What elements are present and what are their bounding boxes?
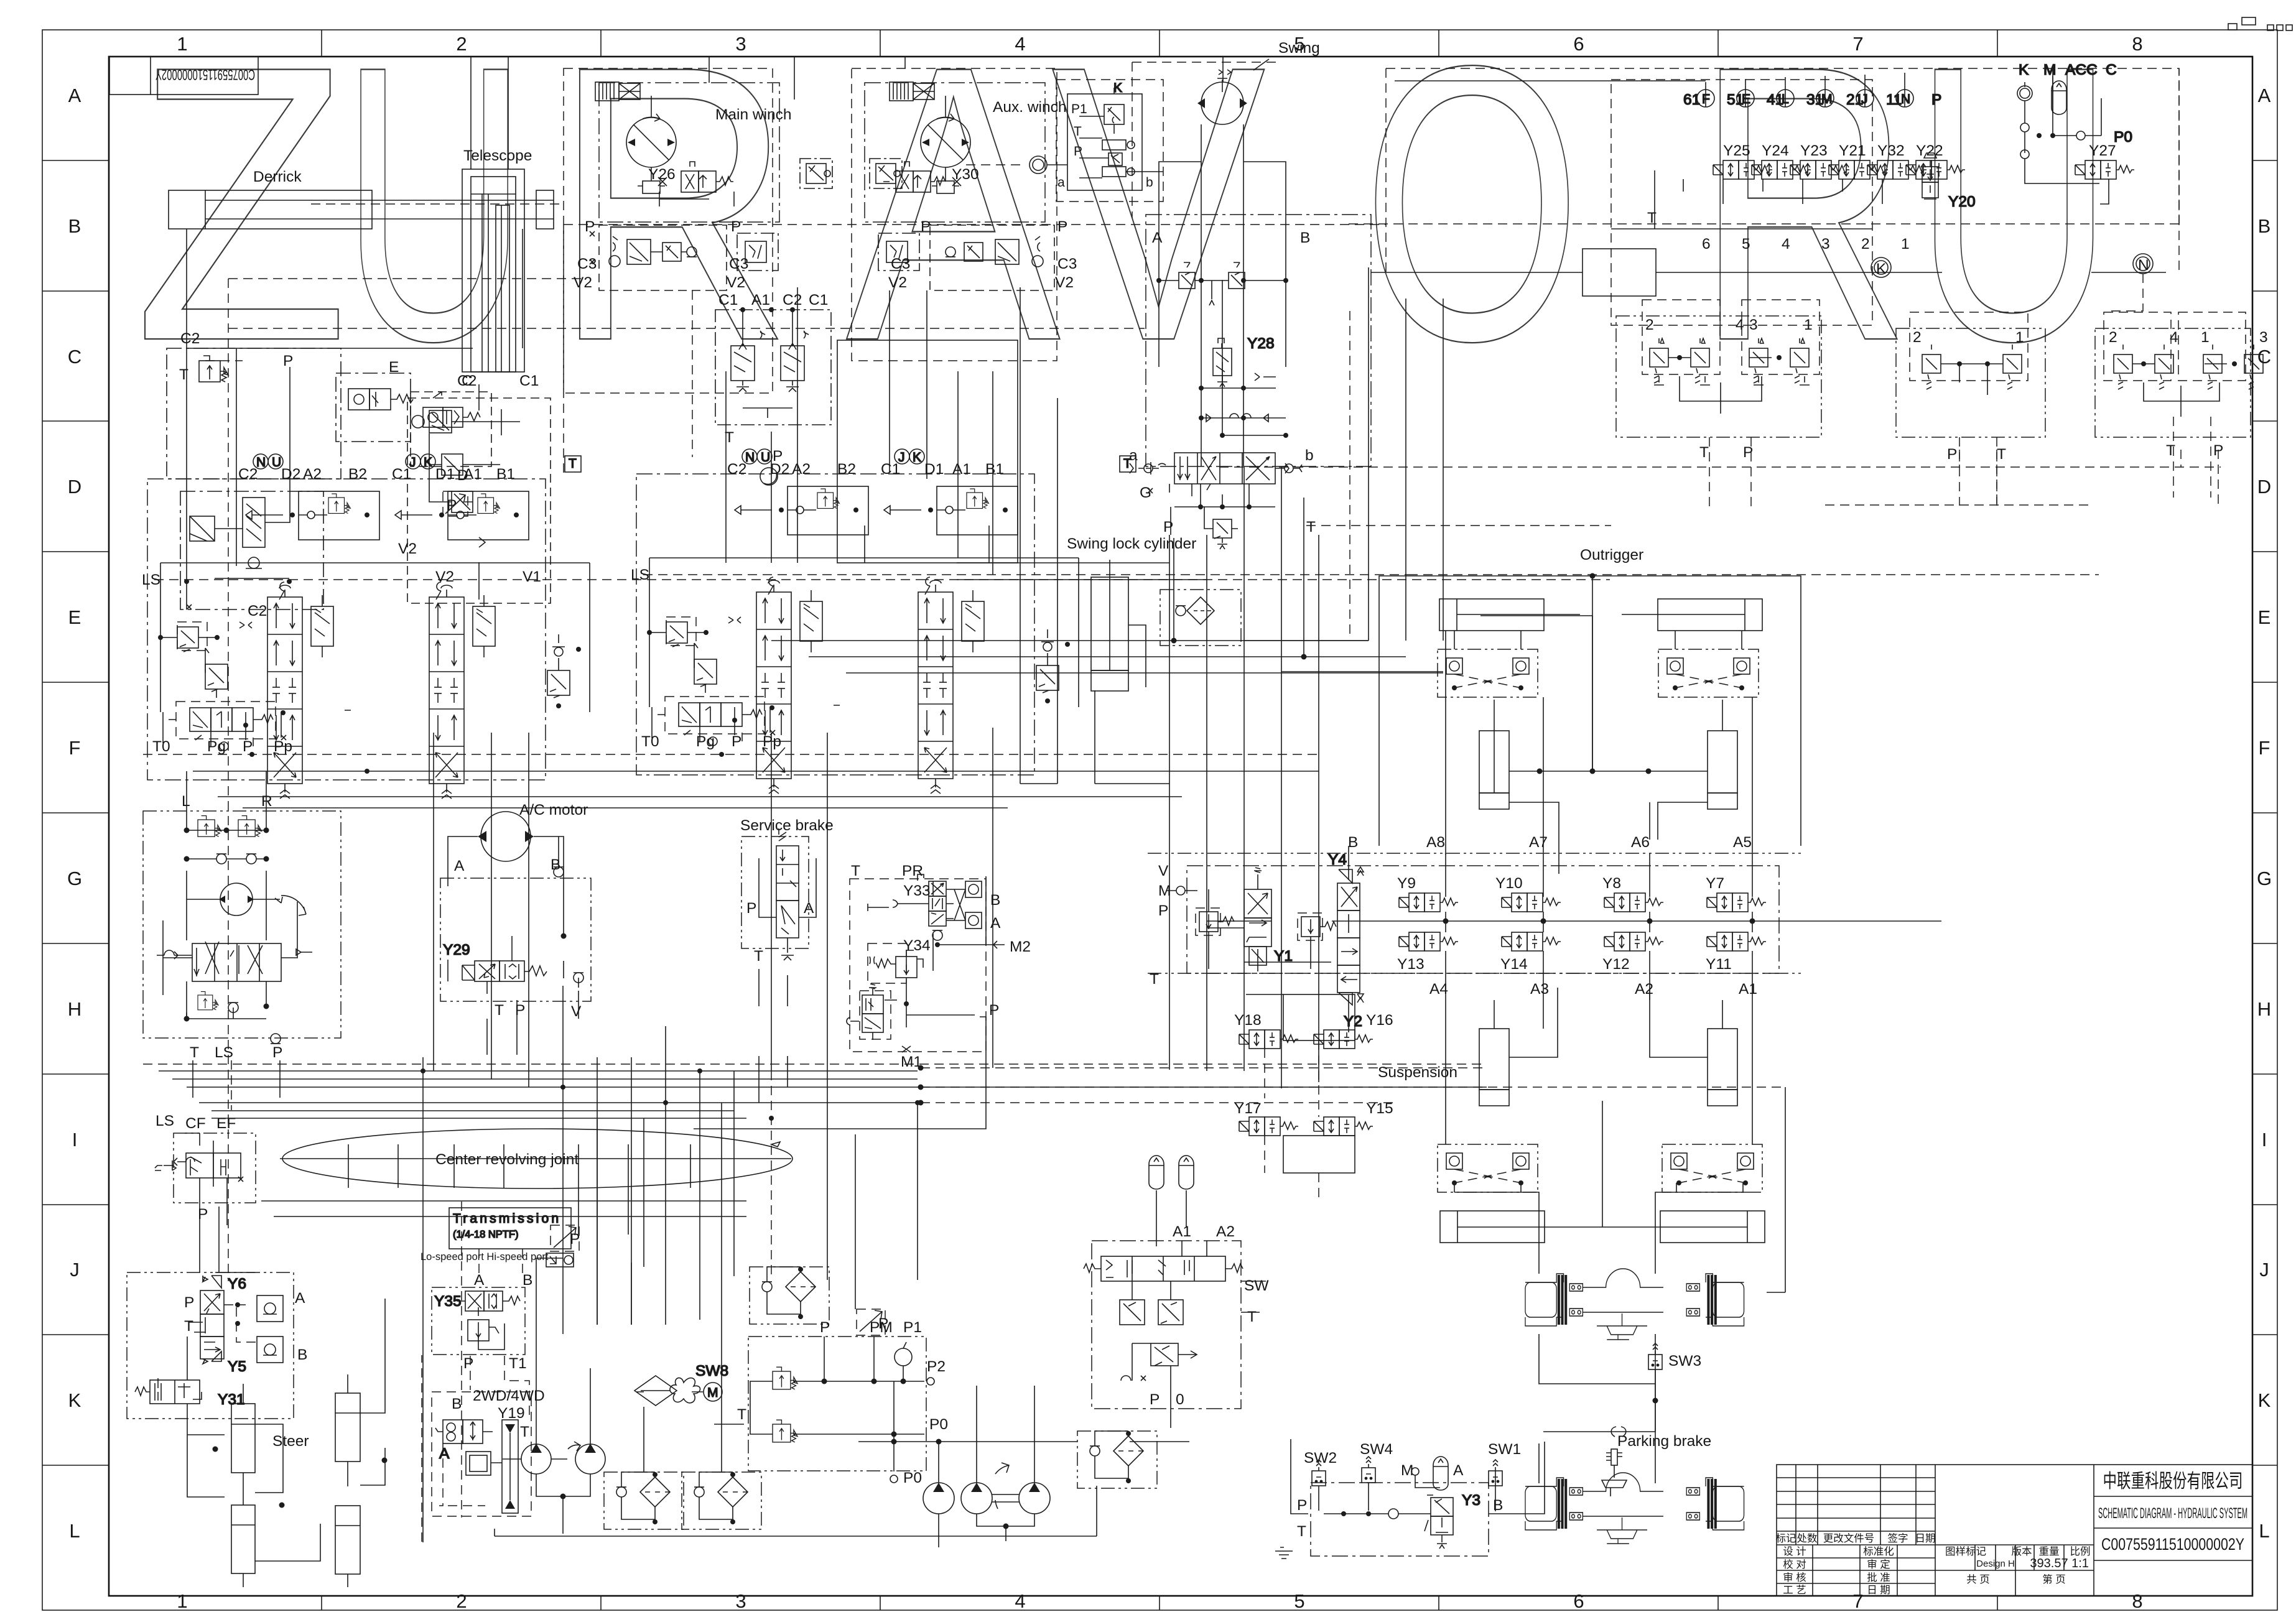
svg-text:Pp: Pp [274,738,292,755]
svg-text:Y25: Y25 [1723,142,1750,159]
svg-text:A: A [990,915,1001,932]
svg-text:Y5: Y5 [228,1358,246,1375]
svg-text:3: 3 [1821,236,1830,253]
small P pilot box right [737,233,778,271]
svg-text:C2: C2 [180,330,200,347]
port P gauge line valve [546,1253,574,1267]
svg-text:SW8: SW8 [695,1363,728,1379]
svg-text:V: V [571,1003,582,1020]
cross reliefs [1156,262,1288,305]
svg-text:8: 8 [2132,1590,2142,1612]
svg-text:T1: T1 [509,1355,527,1372]
svg-text:C3: C3 [729,256,748,272]
svg-text:Derrick: Derrick [253,169,302,185]
svg-text:P: P [820,1319,830,1336]
axle links [918,1065,1786,1484]
svg-text:6: 6 [1702,236,1711,253]
vertical cylinders upper [1479,700,1737,874]
svg-text:D1: D1 [435,466,455,483]
svg-text:M2: M2 [1010,938,1031,955]
drawing number label box C00755911510000002Y [109,57,258,95]
svg-text:F: F [69,737,81,759]
svg-text:N: N [256,455,266,470]
svg-text:K: K [2258,1389,2271,1411]
accumulator [1149,1156,1164,1189]
svg-text:H: H [68,998,81,1020]
svg-text:LS: LS [142,572,160,588]
svg-text:1: 1 [1901,236,1910,253]
svg-text:5: 5 [1742,236,1750,253]
swing block boundary [1146,215,1371,466]
svg-text:A1: A1 [1173,1223,1191,1240]
svg-text:B2: B2 [348,466,367,483]
svg-text:A5: A5 [1733,834,1752,851]
svg-text:D: D [68,476,81,498]
svg-text:11: 11 [1886,91,1902,108]
svg-text:C00755911510000002Y: C00755911510000002Y [156,66,255,83]
svg-text:A: A [1152,229,1163,246]
svg-text:Aux. winch: Aux. winch [993,99,1066,116]
svg-text:P1: P1 [1071,102,1087,116]
svg-text:Y3: Y3 [1462,1492,1480,1509]
svg-text:Lo-speed port Hi-speed port: Lo-speed port Hi-speed port [421,1251,549,1263]
svg-text:393.57: 393.57 [2030,1557,2068,1570]
steering priority valve LS CF EF [155,1113,256,1225]
transmission control [421,1208,605,1534]
svg-text:P: P [184,1294,194,1311]
svg-text:I: I [72,1129,78,1151]
wire diagonals (leader lines) [187,348,473,349]
lower vertical cylinders [1479,988,1737,1106]
main fan spool [157,902,312,1019]
rear axle [1525,1269,1744,1340]
brake release block SW2 SW4 SW1 Y3 [1275,1439,1545,1559]
svg-text:Center revolving joint: Center revolving joint [435,1151,579,1168]
svg-text:A: A [1453,1462,1464,1479]
svg-text:比例: 比例 [2070,1545,2091,1557]
svg-text:P: P [1074,144,1082,159]
svg-text:T: T [1150,971,1159,988]
aux winch circuit [852,68,1077,361]
svg-text:A2: A2 [1635,981,1653,998]
main control valve bank (left) [142,454,1610,799]
svg-text:K: K [1876,261,1887,277]
swing motor [1197,70,1247,124]
steer circuit [127,1272,388,1587]
svg-text:M: M [1821,92,1833,106]
svg-text:审 核: 审 核 [1783,1572,1806,1583]
svg-text:N: N [2138,257,2149,274]
svg-text:2: 2 [1913,329,1922,346]
svg-text:V: V [1158,863,1169,879]
svg-text:签字: 签字 [1888,1532,1908,1544]
svg-text:J: J [409,455,416,470]
svg-text:1: 1 [1804,317,1813,333]
extra feeders [200,616,1592,1272]
svg-text:Swing: Swing [1278,40,1320,57]
svg-text:P: P [731,218,741,235]
lower relief + checks [184,991,281,1044]
port labels [238,466,515,483]
svg-text:7: 7 [1852,1590,1863,1612]
svg-text:C: C [68,346,81,368]
counterbalance body [180,367,323,609]
svg-text:T: T [520,1424,529,1440]
svg-text:T: T [1699,444,1709,461]
derrick holding-valve block [167,348,341,479]
pilot valve bottom-left of bank [169,702,351,746]
sheet corner marks [2228,17,2292,30]
solenoid valves rows [1397,875,1766,973]
charge valve [847,984,975,1040]
svg-text:3: 3 [1749,317,1758,333]
svg-text:PM: PM [870,1319,893,1336]
svg-text:G: G [67,868,82,889]
svg-text:0: 0 [1176,1391,1184,1408]
svg-text:A8: A8 [1426,834,1445,851]
winch brake shuttle block below [599,225,727,290]
svg-text:U: U [341,0,528,423]
valve manifold left: V M P, relief, Y1, Y2/Y4 [1187,866,1779,973]
relief manifold block [748,1337,926,1471]
svg-text:5: 5 [1294,1590,1304,1612]
svg-text:4: 4 [2170,329,2178,346]
svg-text:A7: A7 [1529,834,1548,851]
anti-cavitation checks [1199,280,1288,438]
svg-text:Y29: Y29 [443,942,470,958]
svg-text:Y27: Y27 [2089,142,2116,159]
svg-text:SW1: SW1 [1488,1441,1521,1458]
swing circuit [1129,40,1371,549]
outrigger lock valve (right upper) [1658,649,1759,697]
svg-text:E: E [68,606,81,628]
extra bundle lines [172,1079,918,1159]
cluster 1 (col6) [1616,300,1821,512]
svg-text:C3: C3 [891,256,910,272]
svg-text:C1: C1 [519,373,539,389]
svg-text:a: a [1057,175,1065,190]
top compensator boxes [246,491,379,540]
svg-text:批 准: 批 准 [1867,1572,1890,1583]
svg-text:2WD/4WD: 2WD/4WD [473,1388,545,1404]
svg-text:B: B [1348,834,1358,851]
svg-text:C2: C2 [248,603,267,619]
outrigger circuit [1148,547,1941,1243]
svg-text:E: E [2258,606,2271,628]
return filter [604,1472,684,1529]
svg-text:L: L [69,1520,80,1542]
svg-text:Y9: Y9 [1397,875,1416,892]
svg-text:A2: A2 [1216,1223,1235,1240]
svg-text:3: 3 [2259,329,2268,346]
svg-text:A1: A1 [751,292,770,308]
vertical links winch valves to banks [726,287,1020,575]
svg-text:Y12: Y12 [1602,956,1630,973]
swing downfeeds [1174,535,1304,657]
suspension pilot valves [1149,994,1457,1246]
svg-text:标记: 标记 [1776,1532,1796,1544]
return manifold [837,340,1018,563]
svg-text:C: C [2106,62,2117,78]
svg-text:版本: 版本 [2012,1545,2032,1557]
svg-text:A: A [804,900,814,917]
svg-text:P: P [921,218,931,235]
svg-text:K: K [68,1389,81,1411]
svg-text:A1: A1 [1739,981,1757,998]
svg-text:R: R [552,0,793,422]
svg-text:Y24: Y24 [1762,142,1789,159]
svg-text:6: 6 [1573,1590,1584,1612]
svg-text:P: P [1057,218,1067,235]
svg-text:Y30: Y30 [952,166,979,183]
accumulator [1179,1156,1194,1189]
solenoid valve Y11 [1707,932,1766,951]
svg-text:P: P [746,900,756,917]
derrick cylinder [169,190,372,229]
pilot valve square E [336,373,413,442]
svg-text:Y10: Y10 [1495,875,1523,892]
svg-text:G: G [2257,868,2272,889]
swing lock cylinder [1067,535,1241,691]
lines down to manifolds [1706,73,1905,107]
svg-text:B: B [990,892,1000,909]
svg-text:C1: C1 [718,292,738,308]
hose bundles [143,986,1487,1542]
bottom relief [1174,484,1275,549]
svg-text:M: M [707,1386,718,1400]
svg-text:V2: V2 [888,274,907,291]
svg-text:A: A [846,0,1062,423]
svg-text:T: T [1297,1523,1306,1540]
LS line + top rails [160,563,590,712]
svg-text:(1/4-18 NPTF): (1/4-18 NPTF) [453,1229,518,1240]
numbers under valves [1702,236,1910,253]
svg-text:1:1: 1:1 [2071,1557,2089,1570]
svg-text:更改文件号: 更改文件号 [1823,1532,1875,1544]
svg-text:Design H: Design H [1976,1559,2015,1569]
svg-text:P: P [1947,446,1957,463]
svg-text:B1: B1 [496,466,515,483]
svg-text:V2: V2 [1055,274,1074,291]
svg-text:Y14: Y14 [1500,956,1528,973]
brake charge cluster Y33 Y34 [694,863,1031,1129]
svg-text:A: A [68,85,81,106]
solenoid valve Y12 [1604,932,1663,951]
derrick circuit [167,169,1145,1281]
telescope cylinder circuit [407,147,551,603]
svg-text:N: N [1901,92,1910,106]
svg-text:M: M [2043,62,2056,78]
svg-text:P: P [1158,902,1168,919]
dashed LS line across top [228,328,1145,329]
svg-text:P: P [272,1044,282,1061]
svg-text:C2: C2 [238,466,258,483]
svg-text:V2: V2 [727,274,745,291]
svg-text:A: A [2258,85,2271,106]
svg-text:Y32: Y32 [1877,142,1905,159]
svg-text:G: G [1140,484,1151,501]
right side relief of bank [547,634,581,708]
svg-text:P0: P0 [929,1416,948,1433]
top feeders from frame [471,57,1223,169]
svg-text:中联重科股份有限公司: 中联重科股份有限公司 [2103,1470,2243,1492]
svg-text:Y26: Y26 [648,166,676,183]
svg-text:Steer: Steer [272,1433,309,1450]
svg-text:SW3: SW3 [1668,1353,1701,1369]
svg-text:3: 3 [735,1590,746,1612]
svg-text:P1: P1 [903,1319,922,1336]
feeders down to transmission/pumps area [536,1103,855,1392]
svg-text:T: T [754,948,763,965]
horizontal cylinders with rods [1439,599,1762,631]
svg-text:J: J [2259,1259,2269,1281]
pumps / filters / relief manifold [422,1225,1189,1547]
svg-text:J: J [70,1259,80,1281]
dashed verticals left of winches [564,225,692,473]
spool stacks [267,585,302,799]
svg-text:B: B [297,1346,307,1363]
pilot solenoid bank top right [1386,62,2179,325]
svg-text:Y18: Y18 [1234,1012,1262,1029]
svg-text:T: T [569,456,577,471]
svg-text:Y8: Y8 [1602,875,1621,892]
svg-text:Y19: Y19 [498,1405,525,1422]
2WD/4WD [432,1392,531,1516]
interconnection dashed lines right side [1349,68,2179,224]
svg-text:1: 1 [2015,329,2024,346]
svg-text:1: 1 [177,1590,187,1612]
Y20 vertical valve [1922,153,1976,210]
pilot filter [1077,1431,1157,1488]
svg-text:共 页: 共 页 [1966,1573,1990,1585]
svg-text:T: T [1074,124,1082,139]
right dashed run lines [1219,467,2221,526]
svg-text:Pg: Pg [207,738,226,755]
svg-text:T: T [1123,456,1132,471]
svg-text:校 对: 校 对 [1783,1559,1806,1570]
svg-text:2: 2 [1645,317,1654,333]
svg-text:B: B [68,215,81,237]
svg-text:Y22: Y22 [1916,142,1943,159]
svg-text:B: B [551,856,560,873]
svg-text:C2: C2 [783,292,802,308]
pressure switch SW3 [1543,1343,1701,1432]
T boxes at top of banks [565,456,581,472]
svg-text:图样标记: 图样标记 [1945,1545,1986,1557]
steer cylinders [213,1272,388,1587]
svg-text:Y11: Y11 [1706,956,1732,973]
compensator small valves beside spools [279,582,495,657]
svg-text:处数: 处数 [1797,1532,1818,1544]
svg-text:8: 8 [2132,33,2142,55]
svg-text:4: 4 [1782,236,1790,253]
svg-text:标准化: 标准化 [1863,1545,1894,1557]
svg-text:A: A [439,1445,450,1462]
svg-text:Swing lock cylinder: Swing lock cylinder [1067,535,1196,552]
svg-text:L: L [2259,1520,2269,1542]
svg-text:H: H [2257,998,2271,1020]
svg-text:PR: PR [902,863,923,879]
svg-text:A: A [454,858,465,874]
svg-text:P0: P0 [903,1470,922,1486]
svg-text:I: I [2262,1129,2267,1151]
K and N circles [1871,257,1891,277]
svg-text:工 艺: 工 艺 [1783,1584,1806,1596]
svg-text:Outrigger: Outrigger [1580,547,1643,563]
service brake drops [759,1056,788,1103]
svg-text:B: B [2258,215,2271,237]
main pressure line P0 across [858,1441,1189,1442]
svg-text:U: U [272,455,281,470]
svg-text:V2: V2 [574,274,592,291]
Y26 pilot valve [659,162,734,206]
Y27 + accumulator K M ACC C [2017,62,2132,183]
watermark ZURAVO RU [134,0,2114,423]
svg-text:日 期: 日 期 [1867,1584,1890,1596]
svg-text:SW2: SW2 [1304,1450,1337,1466]
inlet section: reducing valve + relief [158,622,252,698]
svg-text:T: T [1997,446,2006,463]
title block [1776,1465,2253,1596]
svg-text:T: T [495,1002,504,1019]
svg-text:第 页: 第 页 [2042,1573,2066,1585]
front axle with parking brake [1525,1427,1744,1544]
svg-text:日期: 日期 [1915,1532,1936,1544]
svg-text:SCHEMATIC DIAGRAM - HYDRAULIC: SCHEMATIC DIAGRAM - HYDRAULIC SYSTEM [2098,1505,2247,1522]
svg-text:C1: C1 [392,466,411,483]
A/C motor circuit [440,802,591,1055]
svg-text:R: R [261,793,272,810]
svg-text:P: P [1297,1497,1307,1514]
svg-text:4: 4 [1736,317,1744,333]
svg-text:SW4: SW4 [1360,1441,1393,1458]
svg-text:b: b [1146,175,1153,190]
svg-text:F: F [2259,737,2270,759]
svg-text:P: P [463,1355,473,1372]
triple pump [923,1386,1050,1547]
svg-text:2: 2 [1861,236,1870,253]
svg-text:SW: SW [1244,1277,1269,1294]
svg-text:P0: P0 [2114,129,2132,146]
Y4/Y2 vertical spool [1328,846,1364,1032]
svg-text:L: L [182,793,190,810]
svg-text:Y28: Y28 [1247,335,1275,352]
svg-text:R: R [1696,0,1911,422]
wire: large dashed region boundary [228,279,582,1281]
svg-text:b: b [1305,447,1314,464]
svg-text:T0: T0 [152,738,170,755]
svg-text:T: T [184,1318,193,1335]
solenoid valves Y25..Y22 [1713,142,1965,179]
svg-text:B: B [452,1396,462,1412]
svg-text:A2: A2 [303,466,322,483]
svg-text:C: C [2257,346,2271,368]
svg-text:61: 61 [1683,91,1700,108]
svg-text:C2: C2 [457,373,476,389]
svg-text:K: K [1113,81,1122,95]
svg-text:P: P [989,1002,999,1019]
svg-text:B: B [523,1272,532,1289]
svg-text:Y7: Y7 [1706,875,1724,892]
vertical port lines [1446,631,1752,855]
outrigger lock valve (left upper) [1438,649,1538,697]
svg-text:Y20: Y20 [1948,193,1976,210]
svg-text:设 计: 设 计 [1783,1545,1806,1557]
Y28 valve [1199,335,1276,391]
winch counterbalance valves C1 A1 C2 C1 [715,292,831,485]
svg-text:重量: 重量 [2039,1545,2060,1557]
cluster 2 (col7) [1896,312,2045,506]
